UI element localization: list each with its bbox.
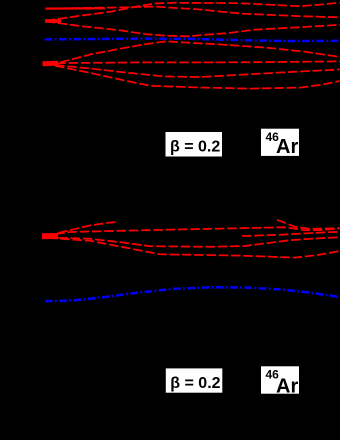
level I2 descending from fan xyxy=(48,238,340,258)
level B flat then descending xyxy=(46,7,340,18)
svg-text:Ar: Ar xyxy=(276,136,298,158)
level H2 descending from fan then rising xyxy=(46,237,340,247)
level C descending from fan A, dipping toward Fermi xyxy=(46,21,340,36)
level R rising from fan B toward Fermi then down xyxy=(60,41,340,62)
svg-text:β = 0.2: β = 0.2 xyxy=(170,375,220,392)
level B solid start xyxy=(46,7,106,10)
Fermi level (blue dash-dot) top panel xyxy=(45,39,340,41)
beta = 0.2 label box (top) xyxy=(166,132,223,157)
fan blob bottom xyxy=(42,233,58,239)
level F flat from fan B xyxy=(44,61,340,64)
level F2 flat from fan with dip at right xyxy=(43,227,340,236)
level A rising from fan A xyxy=(46,3,340,21)
level G2 appearing mid-right xyxy=(242,232,340,236)
46Ar label box (top) xyxy=(261,129,299,159)
svg-text:Ar: Ar xyxy=(276,375,298,397)
46Ar label box (bottom) xyxy=(261,366,299,397)
fan A blob xyxy=(45,19,61,23)
level D1 shallow descending from fan B xyxy=(55,65,340,77)
level D2 steep descending from fan B xyxy=(55,66,340,89)
level S2 descending into right cluster xyxy=(277,220,340,229)
svg-text:β = 0.2: β = 0.2 xyxy=(170,139,220,156)
Fermi level (blue dash-dot) bottom panel xyxy=(45,287,340,301)
fan B blob xyxy=(43,61,59,67)
beta = 0.2 label box (bottom) xyxy=(166,368,223,392)
level R2 rising from fan, ends mid-panel xyxy=(46,222,118,236)
